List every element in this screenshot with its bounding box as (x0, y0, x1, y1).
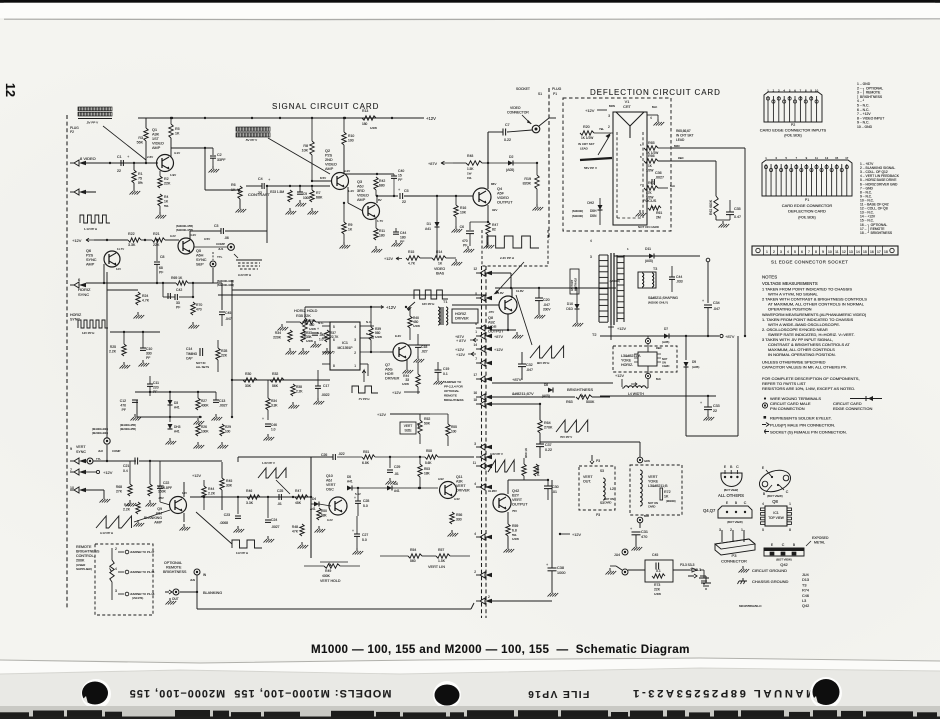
dashed cap stack (236, 259, 262, 261)
pointer from waveform to emitter (516, 295, 532, 345)
svg-text:C44: C44 (400, 231, 406, 235)
diode D1 A41 (435, 222, 440, 227)
page top white band (0, 3, 940, 18)
pulse waveform near IC1 (352, 386, 378, 393)
svg-text:+: + (702, 299, 704, 303)
resistor R27 400K (196, 398, 200, 410)
svg-text:BLU: BLU (670, 184, 675, 188)
svg-text:A41: A41 (174, 406, 180, 410)
transistor Q5 sync sep (178, 238, 194, 254)
svg-text:METAL: METAL (814, 541, 825, 545)
svg-text:R25: R25 (110, 345, 116, 349)
svg-text:15: 15 (863, 250, 867, 254)
svg-text:D4: D4 (312, 497, 316, 501)
svg-text:16: 16 (473, 391, 477, 395)
svg-text:4: 4 (474, 482, 476, 486)
wire Q2 collector bus y174 (344, 173, 394, 175)
resistor R24 4.7K (136, 292, 140, 305)
svg-text:&#8211;87V: &#8211;87V (512, 391, 534, 396)
svg-text:R8: R8 (303, 144, 308, 148)
svg-text:C26: C26 (321, 453, 327, 457)
wire horiz sync to Q6 (86, 282, 176, 284)
svg-text:C11: C11 (153, 381, 159, 385)
resistor R34 220K (288, 330, 292, 342)
wire R13 to +12V bus segment (392, 117, 424, 119)
wire R65 brn to +87V node (672, 147, 745, 149)
svg-text:VIDEO: VIDEO (152, 142, 164, 146)
svg-text:8.5V: 8.5V (320, 176, 326, 180)
wire Q2 base (312, 180, 332, 182)
svg-text:90V PP H: 90V PP H (537, 361, 549, 365)
svg-text:8: 8 (789, 528, 791, 532)
lower card edge dashed boundary (485, 266, 487, 618)
svg-text:22K: 22K (221, 354, 228, 358)
wire y290 Q6 (107, 289, 138, 291)
svg-text:WIDTH ADJ: WIDTH ADJ (575, 277, 578, 291)
svg-text:R53: R53 (424, 467, 430, 471)
capacitor C2 33PF (212, 148, 214, 155)
transistor Q10 vert osc (329, 497, 347, 515)
svg-text:+12V: +12V (456, 353, 465, 357)
svg-text:REMOTE: REMOTE (166, 566, 182, 570)
svg-text:R74: R74 (802, 589, 809, 593)
svg-text:150K: 150K (158, 490, 167, 494)
sync waveform 2 (78, 320, 108, 328)
resistor R37 22.7K (325, 330, 329, 342)
svg-text:17: 17 (877, 250, 881, 254)
svg-text:C23: C23 (224, 513, 230, 517)
svg-text:2M: 2M (656, 216, 661, 220)
wire Q7 to T1 (408, 344, 430, 346)
svg-text:1.6V PP V: 1.6V PP V (262, 461, 275, 465)
svg-text:P1: P1 (553, 92, 557, 96)
svg-text:+: + (700, 401, 702, 405)
svg-text:33PF: 33PF (217, 158, 226, 162)
basing diagram ALL OTHERS (721, 473, 742, 487)
svg-text:3.3K: 3.3K (271, 404, 278, 408)
svg-text:A41: A41 (347, 480, 353, 484)
resistor R16 10K (455, 196, 457, 205)
svg-text:.047: .047 (225, 317, 232, 321)
S1 edge connector socket bar (752, 246, 898, 255)
svg-text:Q7: Q7 (385, 363, 390, 367)
svg-text:C3: C3 (214, 224, 218, 228)
svg-text:10: 10 (828, 250, 832, 254)
svg-text:14: 14 (856, 250, 860, 254)
svg-text:8 VIDEO: 8 VIDEO (80, 156, 96, 161)
svg-text:14V PP H: 14V PP H (82, 331, 94, 335)
wire step from sync row (237, 457, 239, 462)
svg-text:D8: D8 (544, 383, 548, 387)
svg-text:R65: R65 (648, 141, 655, 145)
resistor R48 47K (300, 524, 304, 536)
svg-text:22: 22 (258, 191, 262, 195)
svg-text:BRIGHTNESS: BRIGHTNESS (76, 550, 100, 554)
svg-text:D9: D9 (692, 360, 696, 364)
transistor Q4 video output (473, 188, 491, 206)
svg-text:R21: R21 (153, 232, 160, 236)
svg-text:.5V PP V: .5V PP V (86, 121, 98, 125)
svg-text:Q8: Q8 (772, 499, 778, 504)
svg-text:M1000 — 100, 155 and M2000 — 1: M1000 — 100, 155 and M2000 — 100, 155 — … (311, 643, 690, 656)
resistor R8 10K (310, 141, 314, 155)
svg-text:13: 13 (825, 156, 829, 160)
pin 8 video input connector (74, 160, 79, 166)
svg-text:D5: D5 (347, 475, 351, 479)
svg-text:P2S: P2S (86, 254, 94, 258)
transistor Q8 horiz output (499, 296, 517, 314)
svg-text:.0027: .0027 (219, 404, 228, 408)
svg-text:5.6K: 5.6K (425, 461, 432, 465)
svg-text:86V: 86V (491, 182, 496, 186)
svg-text:VERT: VERT (404, 424, 412, 428)
svg-text:0.2V: 0.2V (327, 518, 333, 522)
svg-text:R59: R59 (512, 524, 518, 528)
svg-text:R49: R49 (325, 569, 331, 573)
video waveform block 1 (78, 107, 112, 111)
svg-text:Q11: Q11 (456, 475, 463, 479)
capacitor C4 (246, 185, 262, 187)
svg-text:820K: 820K (523, 182, 532, 186)
svg-text:(FOIL SIDE): (FOIL SIDE) (798, 216, 815, 220)
svg-text:R28: R28 (221, 349, 227, 353)
svg-text:+12V: +12V (455, 348, 464, 352)
svg-text:D11: D11 (645, 247, 651, 251)
svg-text:R14: R14 (436, 250, 442, 254)
resistor R45 33K (220, 478, 224, 490)
svg-text:0.22: 0.22 (545, 448, 552, 452)
svg-text:SYNC: SYNC (70, 318, 80, 322)
pin 7 connector (74, 469, 79, 475)
svg-text:PF: PF (398, 178, 402, 182)
svg-text:C40: C40 (398, 169, 404, 173)
svg-text:1: 1 (475, 330, 477, 334)
capacitor C44 .033 (669, 276, 675, 278)
diode D9 A05 (685, 336, 687, 360)
svg-text:4 – ┘: 4 – ┘ (857, 98, 865, 103)
svg-text:4: 4 (787, 250, 789, 254)
svg-text:D1: D1 (427, 222, 431, 226)
resistor R28 22K (216, 348, 220, 360)
diode D10 D1D (575, 304, 580, 309)
svg-text:470: 470 (196, 308, 202, 312)
svg-text:.022: .022 (338, 452, 345, 456)
cluster row y380 wire (232, 379, 330, 381)
svg-text:D1D: D1D (566, 307, 573, 311)
svg-text:LEAD: LEAD (580, 147, 589, 151)
svg-text:DEFLECTION CARD: DEFLECTION CARD (788, 209, 826, 214)
diode DH2 D5H (598, 205, 603, 210)
svg-text:100: 100 (451, 430, 457, 434)
svg-text:T1: T1 (443, 300, 447, 304)
svg-text:5.0: 5.0 (362, 538, 367, 542)
svg-text:RED: RED (656, 346, 662, 350)
svg-text:+: + (262, 417, 264, 421)
svg-text:L3: L3 (802, 599, 806, 603)
svg-text:.0068: .0068 (220, 521, 229, 525)
svg-text:MANUAL 68P25253A23-1: MANUAL 68P25253A23-1 (631, 687, 816, 699)
diode D8 A05 (548, 388, 553, 393)
svg-text:P3: P3 (596, 459, 600, 463)
svg-text:R11: R11 (379, 229, 385, 233)
svg-text:BLU: BLU (644, 514, 649, 518)
wire Q4 collector up (487, 132, 489, 189)
resistor R19 820K (536, 163, 538, 175)
svg-text:ALL SETS: ALL SETS (196, 365, 209, 369)
svg-text:2.2K: 2.2K (123, 508, 131, 512)
svg-text:SYNC: SYNC (76, 450, 86, 454)
svg-text:5: 5 (762, 528, 764, 532)
svg-text:200K: 200K (76, 559, 85, 563)
svg-text:R5: R5 (175, 127, 180, 131)
wire T2 bottom (610, 325, 612, 340)
svg-text:HOR: HOR (385, 372, 394, 376)
binder hole left (81, 679, 111, 709)
svg-text:R56: R56 (456, 513, 462, 517)
yoke connector top (645, 338, 650, 343)
svg-text:Q10: Q10 (326, 474, 333, 478)
svg-text:47K: 47K (646, 191, 653, 195)
svg-text:1: 1 (766, 250, 768, 254)
svg-text:R9: R9 (348, 223, 352, 227)
svg-text:400K: 400K (201, 404, 209, 408)
wire Q3 collector to C5 (376, 196, 378, 203)
svg-text:R29: R29 (225, 425, 231, 429)
svg-text:1.5K: 1.5K (438, 559, 446, 563)
svg-text:VIDEO: VIDEO (434, 267, 445, 271)
svg-text:2: 2 (488, 595, 490, 599)
svg-text:11V PP H: 11V PP H (236, 551, 248, 555)
svg-text:RESISTORS ARE 10%, 1/4W, EXCEP: RESISTORS ARE 10%, 1/4W, EXCEPT AS NOTED… (762, 386, 855, 391)
svg-text:R63: R63 (566, 400, 573, 404)
svg-text:VIDEO: VIDEO (497, 196, 509, 200)
svg-text:C21: C21 (123, 464, 129, 468)
horiz driver label box (452, 309, 478, 323)
svg-text:R65,66,67: R65,66,67 (676, 129, 691, 133)
svg-text:1K: 1K (664, 495, 669, 499)
wire Q8 emitter gnd (507, 314, 509, 330)
svg-text:MC1391P: MC1391P (337, 346, 353, 350)
resistor R56 330 (450, 512, 454, 524)
svg-text:REPRESENTS SOLDER EYELET.: REPRESENTS SOLDER EYELET. (770, 416, 832, 421)
svg-text:6: 6 (801, 250, 803, 254)
capacitor C30 .01 (544, 485, 552, 487)
svg-text:11: 11 (815, 156, 818, 160)
svg-text:9: 9 (822, 250, 824, 254)
svg-text:63D25556A50-O: 63D25556A50-O (739, 604, 762, 608)
svg-text:R45: R45 (226, 479, 232, 483)
long bus y295 (218, 294, 486, 296)
svg-text:Q6: Q6 (86, 249, 91, 253)
svg-text:PLUG(P) MALE PIN CONNECTION.: PLUG(P) MALE PIN CONNECTION. (770, 423, 835, 428)
svg-text:R61: R61 (656, 211, 662, 215)
svg-text:PF: PF (159, 271, 163, 275)
svg-text:R16: R16 (460, 206, 466, 210)
svg-text:JUMPER TO: JUMPER TO (444, 380, 462, 384)
svg-text:S1 EDGE CONNECTOR SOCKET: S1 EDGE CONNECTOR SOCKET (771, 260, 848, 265)
svg-text:7: 7 (475, 357, 477, 361)
capacitor C26 .022 (332, 454, 334, 460)
svg-text:3: 3 (115, 589, 117, 593)
svg-text:.01: .01 (277, 502, 282, 506)
svg-text:(M2000-400): (M2000-400) (92, 431, 108, 435)
svg-text:AMP: AMP (152, 146, 161, 150)
svg-text:C25: C25 (277, 489, 283, 493)
svg-text:VOLTAGE MEASUREMENTS: VOLTAGE MEASUREMENTS (762, 281, 818, 286)
svg-text:(M2000-455): (M2000-455) (120, 427, 136, 431)
svg-text:7: 7 (333, 351, 335, 355)
svg-text:OPTIONAL: OPTIONAL (164, 561, 182, 565)
svg-text:R2: R2 (164, 177, 169, 181)
svg-text:2.2K: 2.2K (296, 390, 303, 394)
wire right loop (686, 435, 738, 437)
svg-text:C: C (786, 490, 789, 494)
svg-text:1000: 1000 (557, 571, 565, 575)
svg-text:C12: C12 (120, 399, 126, 403)
svg-text:BRIGHTNESS: BRIGHTNESS (567, 387, 593, 392)
scanner top black edge (0, 0, 940, 3)
svg-text:SUPPLIER): SUPPLIER) (76, 567, 92, 571)
wire vertical from contrast area (266, 186, 268, 231)
svg-text:5.0: 5.0 (363, 504, 368, 508)
svg-text:IN CRT SKT: IN CRT SKT (676, 134, 694, 138)
VERT YOKE dashed box (630, 465, 682, 515)
svg-text:4: 4 (762, 502, 764, 506)
svg-text:VIDEO: VIDEO (357, 194, 369, 198)
svg-text:41.95V: 41.95V (488, 489, 497, 493)
page edge shadow line (4, 18, 940, 21)
deflection card dashed boundary S1/P1 (548, 88, 550, 240)
pin 1 vert connector (480, 454, 485, 460)
svg-text:C22: C22 (163, 481, 169, 485)
+12V bus IC area (305, 306, 384, 308)
legend circuit ground (742, 566, 744, 569)
svg-text:+ 87V: + 87V (456, 339, 466, 343)
svg-text:PF: PF (146, 356, 150, 360)
svg-text:P3-3 S3-3: P3-3 S3-3 (680, 563, 695, 567)
svg-text:18K: 18K (424, 472, 431, 476)
capacitor C5 22 (399, 193, 401, 199)
svg-text:(M2000): (M2000) (536, 465, 540, 476)
svg-text:0.5V: 0.5V (204, 237, 210, 241)
svg-text:0.47: 0.47 (734, 215, 741, 219)
resistor R52 50K vert size (418, 420, 422, 434)
svg-text:JU9: JU9 (190, 578, 195, 582)
svg-text:R44: R44 (208, 487, 214, 491)
svg-text:8: 8 (333, 364, 335, 368)
svg-text:+12V: +12V (72, 238, 82, 243)
svg-text:(A05): (A05) (662, 340, 669, 344)
resistor R54 560 (408, 554, 422, 558)
svg-text:R23 1.5M: R23 1.5M (270, 190, 284, 194)
svg-text:0.1: 0.1 (656, 569, 661, 573)
capacitor C22 6.8PF (157, 485, 163, 487)
wire T1 to Q8 base (452, 304, 499, 306)
svg-text:Q42: Q42 (512, 489, 519, 493)
resistor R7 68K (311, 186, 313, 190)
svg-text:CARD: CARD (662, 364, 669, 368)
svg-text:LEAD: LEAD (676, 138, 685, 142)
svg-text:T2: T2 (592, 333, 596, 337)
svg-text:C45: C45 (652, 553, 658, 557)
svg-text:4: 4 (590, 239, 592, 243)
svg-text:470: 470 (120, 404, 126, 408)
svg-text:RED: RED (678, 156, 684, 160)
svg-text:Q42: Q42 (802, 604, 809, 608)
svg-text:Q4: Q4 (497, 187, 502, 191)
basing diagram Q8 TO-3 (757, 467, 794, 496)
svg-text:D5N: D5N (590, 214, 597, 218)
svg-text:4.7K: 4.7K (142, 299, 150, 303)
svg-text:1K: 1K (348, 228, 353, 232)
long wire left to IC area (137, 416, 202, 418)
svg-text:SEP: SEP (196, 263, 204, 267)
svg-text:330: 330 (456, 518, 462, 522)
wire long vertical x552 (551, 480, 553, 534)
svg-text:68K: 68K (321, 514, 328, 518)
svg-text:75: 75 (138, 177, 142, 181)
svg-text:R43: R43 (124, 503, 130, 507)
svg-text:A3K: A3K (152, 133, 160, 137)
svg-text:1.0: 1.0 (271, 428, 276, 432)
resistor R1 75 (133, 162, 135, 164)
capacitor C7 0.22 (502, 129, 504, 136)
svg-text:11.7V: 11.7V (117, 247, 124, 251)
svg-text:C14: C14 (186, 347, 192, 351)
svg-text:12: 12 (473, 267, 477, 271)
svg-text:(A05): (A05) (645, 259, 653, 263)
svg-text:+12V: +12V (615, 374, 624, 378)
svg-text:0.4: 0.4 (123, 469, 128, 473)
svg-text:56V PP V: 56V PP V (584, 166, 597, 170)
svg-text:16: 16 (870, 250, 874, 254)
cluster wire y392 (135, 391, 216, 393)
wire blanking bus (197, 608, 471, 610)
svg-text:R27: R27 (201, 399, 207, 403)
svg-text:17: 17 (473, 373, 477, 377)
resistor R43 2.2K (136, 502, 140, 514)
svg-text:C33: C33 (713, 404, 720, 408)
svg-text:VERT LIN: VERT LIN (428, 565, 445, 569)
resistor R29 100 (220, 424, 224, 436)
svg-text:7: 7 (808, 250, 810, 254)
svg-text:S3: S3 (600, 469, 604, 473)
svg-text:A5F: A5F (497, 192, 505, 196)
wire to contrast (204, 148, 206, 190)
svg-text:VIDEO: VIDEO (510, 106, 521, 110)
svg-text:680: 680 (379, 184, 385, 188)
svg-text:D5H: D5H (590, 209, 597, 213)
svg-text:DH2: DH2 (587, 201, 594, 205)
svg-text:P1: P1 (805, 198, 809, 202)
wire Q1 collector to C2 node (171, 147, 213, 149)
bottom scan edge (0, 706, 940, 719)
svg-text:2: 2 (474, 570, 476, 574)
svg-text:VERT: VERT (583, 475, 593, 479)
svg-text:JU4: JU4 (802, 573, 809, 577)
svg-text:18: 18 (473, 398, 477, 402)
resistor R47 82 (487, 205, 489, 222)
svg-text:400K: 400K (322, 574, 331, 578)
svg-text:+12V: +12V (494, 348, 503, 352)
svg-text:.033: .033 (676, 280, 683, 284)
svg-text:500K: 500K (586, 400, 595, 404)
legend circuit card male pin (762, 403, 767, 408)
TTL jumper circle (87, 458, 93, 464)
svg-text:1.5K: 1.5K (467, 167, 474, 171)
svg-text:DRIVER: DRIVER (456, 489, 470, 493)
svg-text:2ND: 2ND (325, 158, 333, 162)
